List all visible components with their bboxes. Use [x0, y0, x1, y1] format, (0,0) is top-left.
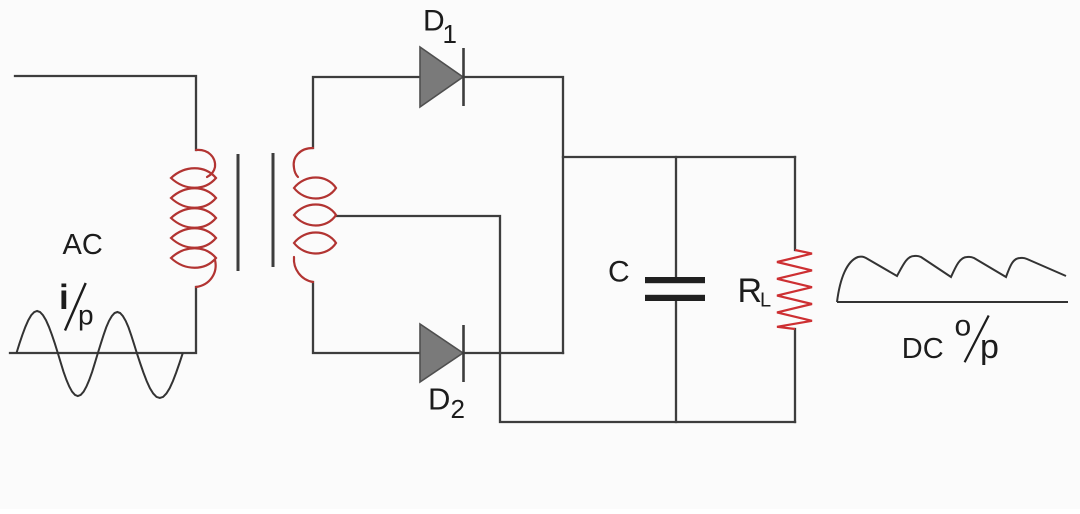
svg-text:R: R	[738, 272, 763, 310]
svg-text:1: 1	[443, 19, 457, 49]
svg-text:i: i	[59, 278, 69, 317]
svg-text:D: D	[428, 382, 450, 417]
svg-text:p: p	[78, 300, 94, 331]
svg-text:DC: DC	[902, 333, 944, 365]
svg-text:D: D	[423, 5, 445, 38]
svg-text:p: p	[980, 328, 999, 366]
svg-text:L: L	[760, 290, 771, 312]
svg-text:C: C	[608, 256, 630, 289]
svg-text:o: o	[955, 309, 972, 342]
svg-text:AC: AC	[63, 229, 103, 261]
svg-text:2: 2	[451, 394, 465, 424]
